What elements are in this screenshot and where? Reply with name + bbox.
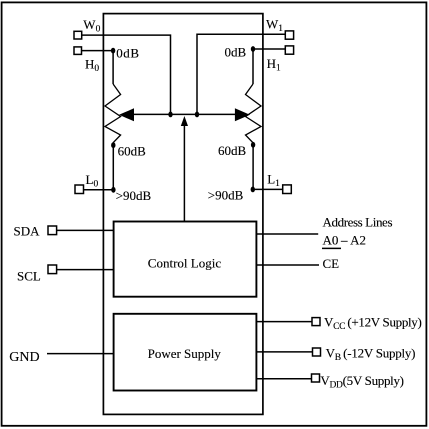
svg-text:60dB: 60dB (118, 143, 147, 158)
wiper arrow left (points into pot0) (119, 108, 134, 121)
svg-text:A0 – A2: A0 – A2 (323, 233, 366, 248)
node 60dB right (junction dot) (251, 142, 255, 148)
wiper arrow right (points into pot1) (235, 108, 250, 121)
wire GND (47, 353, 114, 355)
wire H0 to pot top (82, 50, 114, 52)
terminal SDA (48, 226, 57, 235)
node wiper-W0 junction (168, 112, 172, 118)
node >90dB left (junction dot) (111, 187, 115, 193)
node 0dB right (junction dot) (251, 46, 255, 52)
IC outline box U1 (103, 14, 263, 415)
terminal L1 (283, 185, 292, 194)
wire L0 to pot bottom (84, 189, 114, 191)
node 0dB left (junction dot) (111, 48, 115, 54)
svg-text:SCL: SCL (17, 268, 41, 283)
wire address lines (256, 233, 318, 235)
terminal W0 (74, 31, 82, 39)
wire L1 to pot bottom (253, 188, 283, 190)
wire CE (256, 264, 319, 266)
wire H1 to pot top (253, 48, 285, 50)
terminal VCC (312, 318, 320, 326)
terminal VB (313, 348, 321, 356)
svg-text:>90dB: >90dB (208, 188, 244, 203)
wire pot1 top section (252, 49, 254, 84)
svg-text:SDA: SDA (14, 223, 41, 238)
terminal VDD (312, 374, 320, 382)
svg-text:Address Lines: Address Lines (323, 215, 393, 230)
wire W0 to wiper (82, 35, 171, 114)
node wiper-W1 junction (195, 112, 199, 118)
wire wiper bus (134, 113, 235, 115)
wire VDD (256, 378, 311, 380)
wire VB (256, 351, 312, 353)
control arrow up from Control Logic (181, 116, 188, 126)
wire W1 to wiper (197, 34, 285, 114)
resistor pot1 zigzag (246, 84, 262, 145)
svg-text:>90dB: >90dB (116, 188, 152, 203)
wire SCL (57, 269, 114, 271)
svg-text:60dB: 60dB (218, 143, 247, 158)
terminal SCL (48, 265, 57, 274)
node >90dB right (junction dot) (251, 187, 255, 193)
wire control line (183, 125, 185, 222)
wire pot0 top section (112, 51, 114, 84)
svg-text:CE: CE (323, 256, 340, 271)
terminal W1 (285, 31, 293, 39)
svg-text:Control Logic: Control Logic (148, 256, 222, 271)
svg-text:GND: GND (9, 350, 39, 365)
wire pot1 bottom section (252, 145, 254, 190)
terminal H1 (285, 46, 293, 54)
svg-text:Power Supply: Power Supply (148, 346, 222, 361)
svg-text:0dB: 0dB (116, 46, 139, 61)
wire SDA (57, 229, 114, 231)
wire VCC (256, 321, 312, 323)
wire pot0 bottom section (112, 145, 114, 190)
terminal H0 (74, 47, 82, 55)
terminal L0 (75, 185, 84, 194)
resistor pot0 zigzag (105, 84, 121, 145)
Power Supply block (114, 314, 257, 391)
Control Logic block (114, 222, 257, 297)
A0 underline (322, 247, 341, 249)
svg-text:0dB: 0dB (225, 45, 247, 60)
node 60dB left (junction dot) (111, 142, 115, 148)
